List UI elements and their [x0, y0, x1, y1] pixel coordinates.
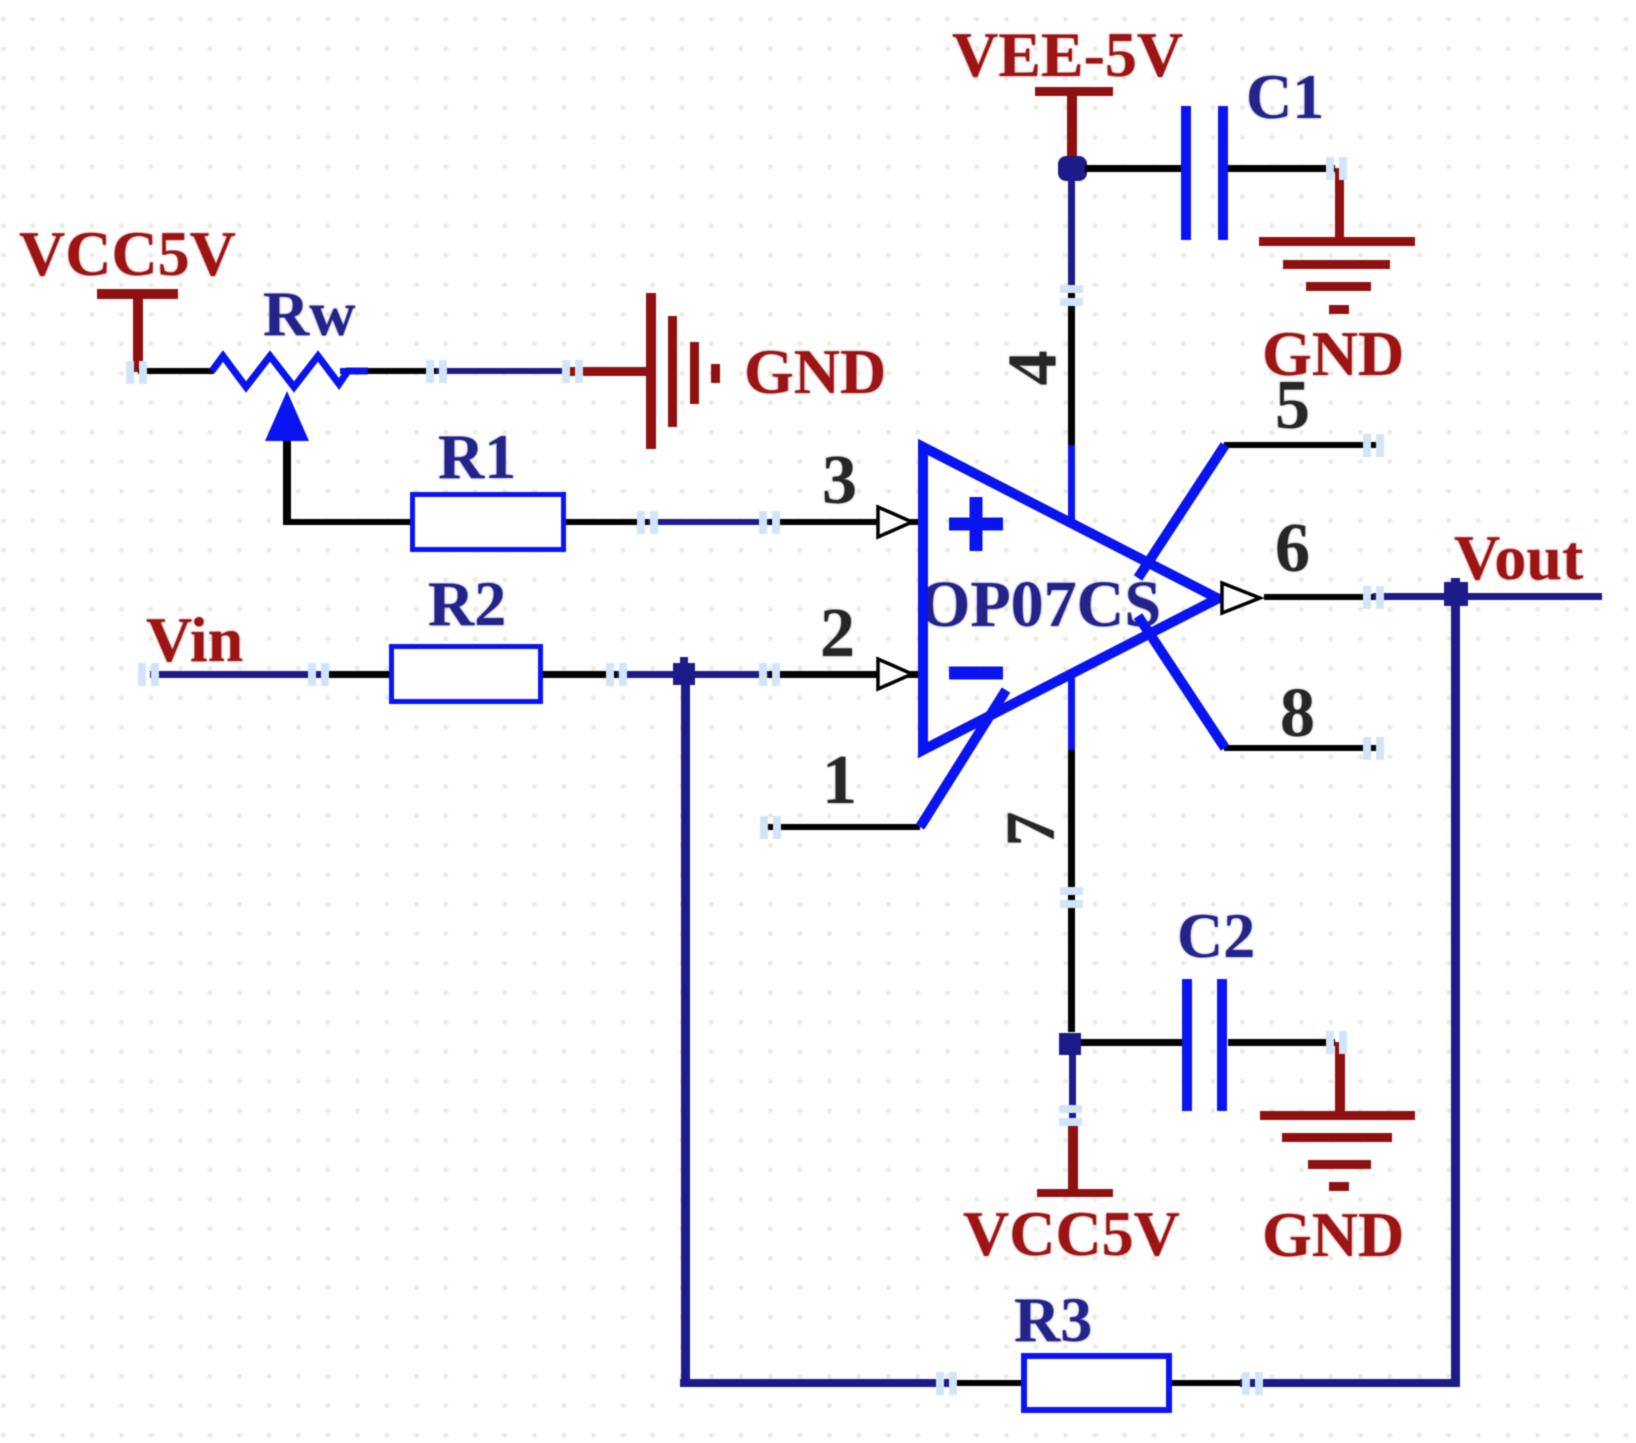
wire pin3 navy	[648, 519, 769, 525]
pin 8 stub diagonal	[1138, 616, 1225, 748]
resistor R2	[428, 572, 506, 636]
wire pin7 black	[1068, 750, 1075, 1032]
wire Vout navy	[1373, 593, 1602, 600]
pin 1 stub diagonal	[920, 690, 1006, 827]
wire pin4 black	[1068, 292, 1075, 445]
ground (top-right)	[1259, 237, 1415, 246]
wire pin2 navy left	[617, 671, 673, 678]
wire C1 to GND (red stem)	[1335, 168, 1344, 238]
resistor R3	[1014, 1288, 1092, 1352]
pin 4 stub (blue)	[1068, 445, 1075, 524]
wire R1 to pin3 black	[566, 519, 648, 525]
pin 7 stub (blue)	[1068, 674, 1075, 750]
wire pin2 black to op-amp	[769, 671, 918, 678]
node Vout junction	[1444, 582, 1468, 606]
wire marks (pale blue)	[126, 361, 134, 384]
wire pin1 black	[765, 824, 920, 830]
power bar VCC5V bottom	[1037, 1189, 1113, 1197]
pin number 3	[822, 446, 857, 516]
capacitor C2	[1177, 904, 1255, 968]
wire into left GND (dark red)	[570, 367, 648, 376]
node junction R2/feedback	[673, 663, 695, 685]
wire C2 to GND (red stem)	[1335, 1042, 1345, 1112]
node pin7/C2 junction	[1059, 1033, 1081, 1055]
node Vout label	[1454, 526, 1583, 590]
pin 6 output arrowhead	[1222, 583, 1260, 613]
wire C1 left black	[1085, 165, 1181, 172]
pin number 4 (rotated)	[999, 351, 1069, 386]
wire C2 left black	[1081, 1039, 1182, 1046]
wire to R1 (black)	[283, 519, 410, 525]
op-amp U1 label	[919, 572, 1161, 638]
pin 2 input arrowhead	[878, 659, 912, 689]
pin 5 stub diagonal	[1138, 445, 1225, 578]
node Vin label	[146, 608, 243, 672]
pin 3 input arrowhead	[878, 507, 912, 537]
wire pin7 navy	[1069, 1055, 1076, 1118]
wire bottom black to R3	[952, 1380, 1021, 1386]
op-amp triangle	[923, 447, 1218, 750]
wire Vin black	[321, 671, 389, 678]
wire Rw to GND segment black	[367, 368, 436, 374]
potentiometer Rw wiper arrow	[265, 391, 309, 441]
pin number 5	[1275, 371, 1310, 441]
pin number 1	[822, 746, 857, 816]
wire feedback bottom navy left	[680, 1379, 952, 1387]
wire Rw to GND segment navy	[436, 368, 571, 374]
wire pin5 black	[1224, 442, 1380, 448]
wire pot wiper stem (black)	[283, 438, 291, 524]
pin number 6	[1275, 514, 1310, 584]
wire pin6 black	[1264, 594, 1373, 600]
ground (bottom-right)	[1260, 1111, 1415, 1120]
wire to VCC bottom (red stem)	[1068, 1118, 1078, 1190]
wire Vin navy	[150, 671, 321, 678]
resistor Rw label	[263, 282, 355, 346]
potentiometer Rw zigzag	[212, 356, 368, 387]
wire C2 right black	[1228, 1039, 1335, 1046]
pin number 2	[820, 599, 855, 669]
wire pin3 black to op-amp	[769, 519, 918, 525]
wire R2 right black	[543, 671, 617, 678]
op-amp minus	[949, 667, 1003, 680]
power VCC5V (top-left)	[19, 222, 236, 286]
wire feedback left vertical (navy)	[681, 685, 690, 1383]
wire Rw right tail (blue)	[340, 368, 368, 374]
wire VCC to Rw (black)	[138, 368, 214, 374]
wire pin8 black	[1224, 745, 1380, 751]
power VEE-5V label	[952, 23, 1183, 87]
wire pin2 navy right	[695, 671, 769, 678]
node VEE junction	[1058, 156, 1087, 181]
wire C1 right black	[1228, 165, 1335, 172]
resistor R1	[438, 425, 516, 489]
capacitor C1	[1246, 65, 1324, 129]
power bar VCC5V top-left	[97, 289, 178, 299]
wire R3 right black	[1172, 1380, 1240, 1386]
pin number 7 (rotated)	[997, 812, 1067, 847]
op-amp plus	[949, 497, 1003, 551]
wire pin4 navy	[1068, 180, 1075, 292]
power bar VEE-5V	[1035, 87, 1113, 96]
wire bottom navy right	[1240, 1379, 1459, 1387]
ground (left, rotated)	[646, 293, 656, 449]
wire feedback right vertical (navy)	[1451, 578, 1460, 1387]
pin number 8	[1280, 679, 1315, 749]
